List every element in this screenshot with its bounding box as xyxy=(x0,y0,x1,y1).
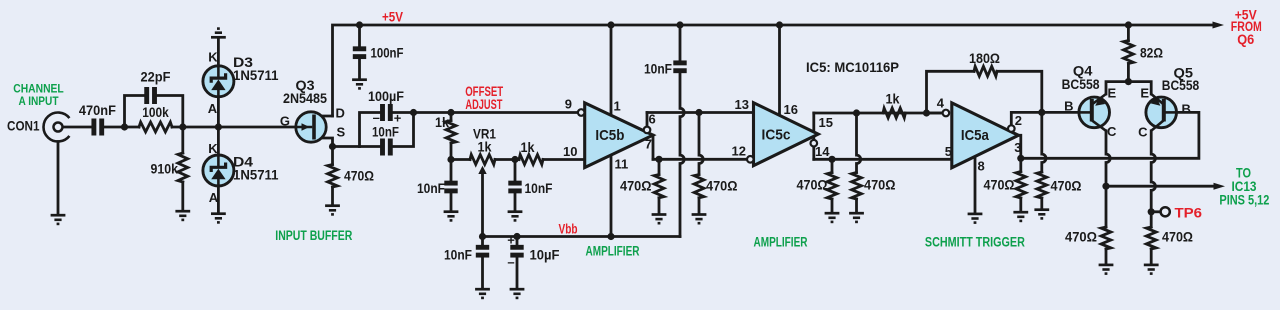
svg-text:470nF: 470nF xyxy=(79,102,116,118)
node pin15 470R xyxy=(853,109,860,116)
resistor 100k xyxy=(139,122,172,132)
wire Vbb 10nF bottom xyxy=(481,257,484,288)
svg-text:10nF: 10nF xyxy=(644,61,672,77)
resistor 470R Q3 source xyxy=(328,165,338,188)
wire 100nF bottom lead xyxy=(358,59,361,79)
wire 1k to pin4 xyxy=(927,112,943,115)
resistor 180R xyxy=(974,66,997,76)
wire 22pF branch xyxy=(125,96,145,128)
node rail 82R xyxy=(1125,21,1132,28)
svg-text:3: 3 xyxy=(1014,140,1021,155)
svg-text:470Ω: 470Ω xyxy=(706,178,738,194)
wire Vbb rail xyxy=(483,235,681,238)
node rail pin16 xyxy=(776,21,783,28)
wire Q4 470R bottom xyxy=(1105,249,1108,264)
wire 10nF lead a xyxy=(450,160,453,182)
svg-text:CON1: CON1 xyxy=(7,118,40,134)
svg-text:100nF: 100nF xyxy=(371,45,404,61)
resistor 470R pin6 xyxy=(694,175,704,198)
wire diode column top xyxy=(217,39,220,67)
svg-text:S: S xyxy=(337,125,346,140)
svg-text:AMPLIFIER: AMPLIFIER xyxy=(754,235,808,250)
svg-text:D: D xyxy=(336,106,345,121)
resistor 470R Q4 xyxy=(1101,227,1111,249)
transistor Q3 2N5485 xyxy=(296,112,326,142)
wire coupling bottom branch xyxy=(360,145,380,148)
wire Q5 collector xyxy=(1151,131,1155,227)
ground D4 xyxy=(211,212,226,215)
svg-text:10nF: 10nF xyxy=(525,180,553,196)
capacitor 10nF Vbb decouple xyxy=(673,60,686,65)
wire VR1 wiper xyxy=(481,172,484,237)
svg-text:15: 15 xyxy=(819,115,833,130)
svg-text:13: 13 xyxy=(735,97,749,112)
svg-text:B: B xyxy=(1064,99,1073,114)
node IC5c pin12 bubble xyxy=(747,156,754,163)
svg-text:1N5711: 1N5711 xyxy=(233,67,279,83)
wire Q3 source to caps xyxy=(333,145,360,148)
connector CON1 xyxy=(44,112,70,141)
ground 470R pin14 xyxy=(825,212,840,215)
wire CON1 ground lead xyxy=(57,142,60,215)
node diode junction xyxy=(215,123,222,130)
wire pin15 line xyxy=(814,112,943,115)
wire 180R left vertical xyxy=(927,71,975,113)
op-amp IC5c xyxy=(754,103,819,166)
svg-text:IC5c: IC5c xyxy=(762,127,791,144)
wire 180R right vertical xyxy=(997,71,1042,112)
wire 22pF branch right xyxy=(157,96,183,128)
wire +5V rail xyxy=(333,25,1214,116)
svg-text:B: B xyxy=(1182,102,1191,117)
wire input line 3 xyxy=(172,126,312,129)
test point TP6 xyxy=(1161,207,1170,216)
node Vbb pin11 xyxy=(607,233,614,240)
svg-text:A: A xyxy=(208,101,218,116)
wire 100nF top lead xyxy=(358,25,361,46)
resistor 470R Q5 xyxy=(1146,227,1156,249)
node IC5b pin9 bubble xyxy=(578,109,585,116)
svg-text:11: 11 xyxy=(615,156,629,171)
svg-text:IC5b: IC5b xyxy=(595,127,624,144)
wire Q4 base line xyxy=(1042,111,1079,114)
svg-text:G: G xyxy=(280,114,290,129)
node rail pin1 xyxy=(607,21,614,28)
svg-text:AMPLIFIER: AMPLIFIER xyxy=(586,244,640,259)
svg-text:K: K xyxy=(208,50,218,65)
ground Q4 470R xyxy=(1099,264,1114,267)
potentiometer VR1 xyxy=(470,155,495,165)
svg-text:+5V: +5V xyxy=(382,9,403,24)
potentiometer VR1 wiper arrow xyxy=(478,166,486,174)
wire 910k bottom lead xyxy=(181,182,184,210)
wire IC5b pin 11 xyxy=(610,155,613,236)
diode D4 1N5711 xyxy=(203,155,234,186)
resistor 470R pin7 xyxy=(654,175,664,198)
svg-text:BC558: BC558 xyxy=(1162,77,1200,93)
op-amp IC5b xyxy=(585,103,653,168)
wire 1k bottom lead xyxy=(450,143,453,160)
svg-text:12: 12 xyxy=(732,144,746,159)
svg-text:8: 8 xyxy=(978,159,985,174)
wire Q3 source resistor bottom xyxy=(331,187,334,205)
resistor 910k xyxy=(178,153,188,182)
node pin14 470R xyxy=(828,156,835,163)
wire pin6 470R vertical xyxy=(699,113,703,175)
op-amp IC5a xyxy=(952,103,1019,168)
ground CON1 xyxy=(51,214,66,217)
node rail 10nF xyxy=(676,21,683,28)
wire IC5a pin 2 stub xyxy=(1011,112,1042,125)
svg-text:2N5485: 2N5485 xyxy=(283,90,327,106)
node emitter rail xyxy=(1125,78,1132,85)
wire 470R bottom at 699 xyxy=(698,198,701,214)
svg-text:K: K xyxy=(208,141,218,156)
wire input line 2 xyxy=(104,126,139,129)
wire 10nF rail lead xyxy=(679,25,682,61)
node VR1 right xyxy=(511,156,518,163)
svg-text:1: 1 xyxy=(614,99,621,114)
resistor 1k pin10 xyxy=(519,155,543,165)
node IC5a pin2 bubble xyxy=(1008,125,1015,132)
node IC5c pin14 bubble xyxy=(811,140,818,147)
svg-text:470Ω: 470Ω xyxy=(864,176,896,192)
wire +5V rail arrowhead xyxy=(1213,22,1225,29)
svg-text:910k: 910k xyxy=(151,161,179,177)
node offset junction xyxy=(447,156,454,163)
wire pin7-pin12 line xyxy=(653,158,747,161)
ground 10nF b xyxy=(508,210,523,213)
wire diode column bottom xyxy=(217,186,220,213)
svg-text:TP6: TP6 xyxy=(1175,206,1203,221)
resistor 82R xyxy=(1124,41,1134,64)
ground Q5 470R xyxy=(1144,264,1159,267)
svg-text:14: 14 xyxy=(815,144,830,159)
ground above D3 xyxy=(211,36,226,39)
node Vbb wiper xyxy=(479,233,486,240)
svg-text:470Ω: 470Ω xyxy=(1051,178,1082,194)
svg-text:470Ω: 470Ω xyxy=(344,167,374,183)
node TP6 junction xyxy=(1148,208,1155,215)
wire 470R lead a xyxy=(658,159,661,174)
svg-text:ADJUST: ADJUST xyxy=(465,97,503,112)
svg-text:E: E xyxy=(1108,85,1117,100)
svg-text:+: + xyxy=(507,233,515,248)
capacitor 100uF xyxy=(380,104,385,121)
wire 470R lead f xyxy=(1019,198,1022,211)
svg-text:470Ω: 470Ω xyxy=(1162,228,1193,244)
svg-text:1k: 1k xyxy=(521,139,535,155)
svg-text:PINS 5,12: PINS 5,12 xyxy=(1219,193,1269,208)
wire TP6 xyxy=(1151,210,1160,213)
wire offset line left xyxy=(451,158,470,161)
svg-text:6: 6 xyxy=(649,111,656,126)
svg-text:SCHMITT TRIGGER: SCHMITT TRIGGER xyxy=(925,234,1025,249)
svg-text:1N5711: 1N5711 xyxy=(233,167,279,183)
wire Vbb 10uF bottom xyxy=(516,257,519,288)
wire offset line mid xyxy=(495,158,519,161)
ground 10uF Vbb xyxy=(510,288,525,291)
node Vbb 10uF xyxy=(513,233,520,240)
svg-text:Vbb: Vbb xyxy=(559,221,578,236)
ground 910k xyxy=(175,210,190,213)
wire 10nF lead d xyxy=(514,193,517,211)
svg-text:1k: 1k xyxy=(886,91,900,107)
node IC5b pin6 bubble xyxy=(644,127,651,134)
wire 82R top lead xyxy=(1127,25,1130,41)
svg-text:1k: 1k xyxy=(478,139,492,155)
wire diode column mid xyxy=(217,97,220,156)
svg-text:22pF: 22pF xyxy=(141,69,171,85)
svg-text:9: 9 xyxy=(565,97,572,112)
resistor 470R pin2 xyxy=(1037,172,1047,198)
svg-text:2: 2 xyxy=(1015,113,1022,128)
wire 10nF lead b xyxy=(450,193,453,211)
capacitor 22pF xyxy=(144,87,149,104)
node rail 100nF xyxy=(356,21,363,28)
svg-text:4: 4 xyxy=(937,96,945,111)
wire output to IC13 xyxy=(1106,185,1215,188)
node pin3 470R xyxy=(1017,155,1024,162)
svg-text:Q6: Q6 xyxy=(1237,32,1254,47)
svg-text:A: A xyxy=(209,190,219,205)
svg-text:IC5a: IC5a xyxy=(961,127,990,144)
capacitor 470nF xyxy=(91,119,96,136)
node coupling out xyxy=(410,109,417,116)
wire 470R lead c xyxy=(831,159,834,172)
wire 470R bottom at 856 xyxy=(855,199,858,212)
svg-text:10nF: 10nF xyxy=(444,246,472,262)
svg-text:10: 10 xyxy=(563,144,577,159)
wire signal to IC5b pin 9 xyxy=(414,111,578,114)
capacitor 100nF xyxy=(353,46,366,51)
svg-text:10nF: 10nF xyxy=(372,124,399,140)
wire Q4 collector xyxy=(1106,131,1110,227)
ground Q3 470R xyxy=(325,204,340,207)
svg-text:16: 16 xyxy=(784,102,798,117)
node input junction A xyxy=(121,123,128,130)
svg-text:100µF: 100µF xyxy=(368,88,404,104)
wire IC5a pin 3 xyxy=(1018,112,1199,158)
wire Q3 drain lead xyxy=(316,115,333,118)
capacitor 10nF offset a xyxy=(444,181,457,186)
wire pin6-pin13 line xyxy=(647,111,754,114)
svg-text:5: 5 xyxy=(945,144,952,159)
capacitor 10nF Vbb xyxy=(476,245,489,250)
wire 1k top lead xyxy=(450,113,453,121)
node 180R right xyxy=(1038,109,1045,116)
svg-text:–: – xyxy=(507,254,514,269)
wire input line xyxy=(63,126,92,129)
ground 10nF Vbb xyxy=(475,288,490,291)
ground 470R pin7 xyxy=(652,213,667,216)
wire Q3 source lead xyxy=(316,138,333,147)
wire Q3 source resistor leads xyxy=(331,147,334,165)
ground 470R pin3 xyxy=(1013,211,1028,214)
svg-text:C: C xyxy=(1107,124,1117,139)
wire coupling top branch xyxy=(360,113,380,147)
wire pin2 470R vertical xyxy=(1042,112,1046,172)
wire 82R bottom lead xyxy=(1127,64,1130,82)
svg-text:82Ω: 82Ω xyxy=(1140,44,1163,60)
capacitor 10uF Vbb xyxy=(510,245,523,250)
resistor 1k schmitt xyxy=(883,108,905,118)
svg-text:A INPUT: A INPUT xyxy=(19,96,59,108)
svg-text:CHANNEL: CHANNEL xyxy=(13,83,64,95)
ground pin 8 xyxy=(968,213,983,216)
svg-text:470Ω: 470Ω xyxy=(1065,228,1097,244)
wire offset line to pin 10 xyxy=(543,158,585,161)
ground 470R pin6 xyxy=(692,213,707,216)
transistor Q4 BC558 xyxy=(1079,97,1110,128)
wire 470R bottom at 1039 xyxy=(1040,198,1043,209)
node 180R left xyxy=(923,109,930,116)
svg-text:BC558: BC558 xyxy=(1062,76,1100,92)
wire pin15 470R vertical xyxy=(857,113,861,173)
svg-text:E: E xyxy=(1140,85,1149,100)
svg-text:1k: 1k xyxy=(435,114,449,130)
node input junction B xyxy=(179,123,186,130)
wire pin14-pin5 line xyxy=(814,158,952,161)
svg-text:470Ω: 470Ω xyxy=(984,177,1015,193)
svg-text:INPUT BUFFER: INPUT BUFFER xyxy=(275,228,352,243)
svg-text:10µF: 10µF xyxy=(530,247,560,263)
wire Vbb 10nF leads xyxy=(481,237,484,246)
node IC5a pin4 bubble xyxy=(943,110,950,117)
ground 10nF a xyxy=(444,210,459,213)
svg-text:7: 7 xyxy=(645,137,652,152)
svg-text:C: C xyxy=(1138,125,1148,140)
node pin7 470R xyxy=(655,156,662,163)
diode D3 1N5711 xyxy=(203,66,234,97)
wire IC5a pin 8 xyxy=(974,157,977,213)
wire coupling top branch right xyxy=(393,111,413,114)
wire IC5b pin 6 stub xyxy=(646,113,649,127)
wire Q5 470R bottom xyxy=(1150,249,1153,264)
wire IC5b pin 1 xyxy=(610,25,613,115)
svg-text:IC5: MC10116P: IC5: MC10116P xyxy=(806,59,899,75)
node Q3 source xyxy=(329,143,336,150)
resistor 470R pin15 xyxy=(852,173,862,200)
svg-text:470Ω: 470Ω xyxy=(797,176,828,192)
transistor Q5 BC558 xyxy=(1146,97,1177,128)
wire 470R lead e xyxy=(1019,158,1022,171)
svg-text:100k: 100k xyxy=(142,104,169,120)
wire 470R lead d xyxy=(831,199,834,212)
wire 10nF to Vbb with hops xyxy=(680,73,684,236)
wire 910k top lead xyxy=(181,127,184,153)
ground 470R pin15 xyxy=(849,212,864,215)
node Q4 collector out xyxy=(1102,183,1109,190)
wire emitter rail xyxy=(1106,82,1151,94)
resistor 470R pin14 xyxy=(827,173,837,200)
node 1k top xyxy=(447,109,454,116)
wire IC5b pin 7 stub xyxy=(652,135,655,159)
wire 470R lead b xyxy=(658,198,661,214)
capacitor 10nF offset b xyxy=(508,181,521,186)
capacitor 10nF coupling xyxy=(380,139,385,156)
svg-text:10nF: 10nF xyxy=(417,180,445,196)
wire IC5c output stub xyxy=(812,113,815,159)
wire IC5c pin 16 xyxy=(778,25,781,115)
resistor 470R pin3 xyxy=(1016,172,1026,199)
ground 100nF xyxy=(352,78,367,81)
ground 470R pin2 xyxy=(1034,208,1049,211)
wire 10nF lead c xyxy=(514,160,517,182)
wire coupling bottom right xyxy=(393,113,413,147)
wire Vbb 10uF leads xyxy=(516,237,519,246)
node pin6 470R xyxy=(695,109,702,116)
resistor 1k offset xyxy=(446,121,456,144)
svg-text:180Ω: 180Ω xyxy=(969,50,1000,66)
svg-text:470Ω: 470Ω xyxy=(620,178,652,194)
